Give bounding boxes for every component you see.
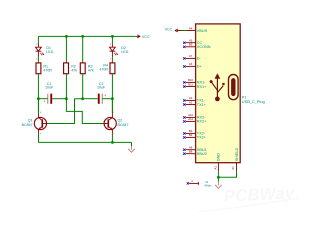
ground (left circuit) xyxy=(128,146,135,152)
svg-text:J1: J1 xyxy=(205,180,209,184)
pin A10 RX2- xyxy=(183,113,206,120)
svg-text:MHole: MHole xyxy=(205,185,213,188)
transistor Q1 xyxy=(34,112,48,135)
svg-text:47k: 47k xyxy=(88,69,94,73)
junction node C col3/C2 xyxy=(81,97,84,100)
svg-text:VCONN: VCONN xyxy=(197,45,211,49)
svg-text:A2: A2 xyxy=(189,100,193,104)
svg-text:1: 1 xyxy=(191,179,193,183)
pin A7 D- xyxy=(183,54,201,61)
pin B2 TX2+ xyxy=(183,133,207,140)
svg-text:A4: A4 xyxy=(189,26,193,30)
svg-text:BC847: BC847 xyxy=(22,123,33,127)
svg-text:LED: LED xyxy=(121,50,128,54)
svg-text:GND: GND xyxy=(216,153,220,162)
svg-text:RX1+: RX1+ xyxy=(197,85,207,89)
wire SHIELD pin to GND net xyxy=(218,171,236,177)
svg-text:TX1+: TX1+ xyxy=(197,103,207,107)
svg-text:A1: A1 xyxy=(213,166,217,170)
pin A8 SBU1 xyxy=(183,146,207,153)
junction node A col1/C1 xyxy=(37,97,40,100)
wire Q1 emitter to rail xyxy=(38,133,40,142)
LED D2 xyxy=(110,44,118,60)
junction node B col2/C1 xyxy=(65,97,68,100)
junction bottom rail col4 xyxy=(111,141,114,144)
wire GND pin down xyxy=(217,171,219,182)
svg-text:USB_C_Plug: USB_C_Plug xyxy=(242,99,265,104)
pin B5 VCONN xyxy=(183,43,211,50)
svg-text:VBUS: VBUS xyxy=(197,29,208,33)
pin B8 SBU2 xyxy=(183,150,207,157)
wire top VCC rail xyxy=(38,35,135,37)
power flag VCC (right) xyxy=(165,27,182,32)
USB-C oval icon xyxy=(229,75,239,100)
svg-text:D+: D+ xyxy=(197,65,203,69)
wire col3 rail to R3 xyxy=(82,36,84,63)
wire VBUS to VCC xyxy=(177,30,186,32)
pin B3 TX2- xyxy=(183,129,206,136)
resistor R2 xyxy=(64,63,69,74)
wire cross-couple node C to Q1 base xyxy=(48,99,82,124)
wire C1 right xyxy=(52,98,66,100)
ground (USB) xyxy=(215,182,222,189)
wire R2 to node B xyxy=(65,74,67,99)
svg-text:1: 1 xyxy=(110,58,112,60)
wire rail to ground xyxy=(131,142,133,146)
pin A1 GND (bottom) xyxy=(213,153,220,172)
transistor Q2 xyxy=(103,112,116,135)
junction node D col4/C2 xyxy=(111,97,114,100)
svg-text:1: 1 xyxy=(46,121,48,123)
pin S1 SHIELD (bottom) xyxy=(231,147,239,171)
junction col3 top xyxy=(81,35,84,38)
resistor R1 xyxy=(36,63,41,74)
svg-text:B8: B8 xyxy=(189,150,193,154)
svg-text:A11: A11 xyxy=(188,117,193,121)
svg-text:A6: A6 xyxy=(189,62,193,66)
svg-text:A7: A7 xyxy=(189,54,193,58)
svg-text:2: 2 xyxy=(40,134,42,136)
pin A11 RX2+ xyxy=(183,117,207,124)
wire C1 left xyxy=(38,98,47,100)
wire D2 to R4 xyxy=(111,57,113,63)
svg-text:S1: S1 xyxy=(231,166,235,170)
svg-text:B11: B11 xyxy=(188,82,193,86)
svg-text:B2: B2 xyxy=(189,133,193,137)
wire bottom rail xyxy=(39,141,132,143)
wire C2 right xyxy=(102,98,112,100)
svg-text:+: + xyxy=(104,94,106,98)
junction GND net xyxy=(217,176,220,179)
svg-text:47k: 47k xyxy=(71,69,77,73)
capacitor C1 xyxy=(43,94,52,104)
svg-text:SBU2: SBU2 xyxy=(197,152,207,156)
svg-text:PCBWay: PCBWay xyxy=(223,183,296,206)
pin B11 RX1+ xyxy=(183,82,207,89)
wire Q2 emitter to rail xyxy=(111,133,113,142)
svg-text:RX2+: RX2+ xyxy=(197,120,207,124)
svg-text:+: + xyxy=(43,100,45,104)
wire Q1 collector xyxy=(38,99,40,114)
wire R4 to node D xyxy=(111,74,113,114)
svg-text:BC847: BC847 xyxy=(118,123,129,127)
wire D1 to R1 xyxy=(37,57,39,63)
svg-text:Q1: Q1 xyxy=(28,119,33,123)
LED D1 xyxy=(36,44,44,60)
wire cross-couple node B to Q2 base xyxy=(66,99,103,124)
wire col4 rail to D2 xyxy=(111,36,113,44)
svg-text:LED: LED xyxy=(46,50,53,54)
svg-text:10uF: 10uF xyxy=(97,86,106,90)
svg-text:2: 2 xyxy=(110,44,112,46)
watermark PCBWay xyxy=(198,183,298,212)
svg-text:Q2: Q2 xyxy=(118,119,123,123)
wire col1 top stem xyxy=(37,36,39,44)
connector P1 USB_C_Plug body xyxy=(196,24,241,163)
USB trident icon xyxy=(210,73,225,101)
pin A2 TX1+ xyxy=(183,100,207,107)
svg-text:TX2+: TX2+ xyxy=(197,136,207,140)
svg-text:B5: B5 xyxy=(189,43,193,47)
junction col2 top xyxy=(65,35,68,38)
pin A3 TX1- xyxy=(183,96,206,103)
pin A4 VBUS xyxy=(185,26,207,33)
svg-text:10uF: 10uF xyxy=(45,86,54,90)
wire col2 rail to R2 xyxy=(65,36,67,63)
wire R3 to node C xyxy=(82,74,84,99)
svg-text:470R: 470R xyxy=(99,68,108,72)
junction col4 top xyxy=(111,35,114,38)
pin A5 CC xyxy=(183,39,202,46)
wire R1 to node A xyxy=(37,74,39,114)
power flag VCC (left) xyxy=(136,35,150,39)
resistor R3 xyxy=(80,63,85,74)
pin B10 RX1- xyxy=(183,78,206,85)
wire C2 left xyxy=(83,98,98,100)
connector J1 MHole xyxy=(187,179,199,185)
pin A6 D+ xyxy=(183,62,202,69)
capacitor C2 xyxy=(98,94,107,104)
svg-text:SHIELD: SHIELD xyxy=(235,147,239,161)
resistor R4 xyxy=(110,63,115,74)
svg-text:VCC: VCC xyxy=(165,27,173,31)
svg-text:3: 3 xyxy=(40,112,42,114)
svg-text:470R: 470R xyxy=(43,69,52,73)
svg-text:VCC: VCC xyxy=(142,35,150,39)
wire Q2 collector xyxy=(111,99,113,114)
